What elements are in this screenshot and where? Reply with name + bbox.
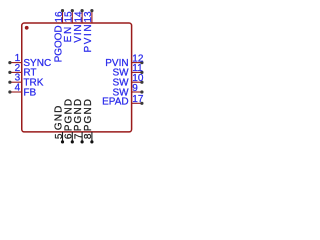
pin 11 (SW) right side (112, 63, 143, 79)
pin 13 (PVIN) top side (83, 9, 94, 53)
wire stub pin 8 (91, 132, 93, 142)
pin 16 end dot (61, 9, 64, 12)
wire stub pin 14 (81, 11, 83, 23)
wire stub pin 15 (71, 11, 73, 23)
svg-text:FB: FB (23, 87, 36, 98)
pin 12 (PVIN) right side (105, 53, 144, 69)
pin 16 (PGOOD) top side (53, 9, 64, 62)
pin 13 end dot (90, 9, 93, 12)
svg-text:PGND: PGND (83, 98, 94, 132)
svg-text:17: 17 (132, 94, 144, 105)
IC body U1 (22, 23, 132, 132)
pin 9 end dot (140, 90, 143, 93)
wire stub pin 7 (81, 132, 83, 142)
wire stub pin 13 (91, 11, 93, 23)
svg-text:9: 9 (132, 83, 138, 94)
pin-1 indicator dot (25, 26, 29, 30)
pin 14 (VIN) top side (73, 9, 84, 43)
pin 2 end dot (8, 71, 11, 74)
wire stub pin 4 (10, 91, 22, 93)
pin 8 (PGND) bottom side (83, 98, 94, 144)
pin 4 (FB) left side (8, 82, 36, 98)
pin 2 (RT) left side (8, 63, 36, 79)
pin 3 (TRK) left side (8, 73, 43, 89)
wire stub pin 1 (10, 62, 22, 64)
pin 1 (SYNC) left side (8, 53, 51, 69)
pin 7 end dot (81, 140, 84, 143)
svg-text:PVIN: PVIN (83, 23, 94, 53)
wire stub pin 17 (132, 102, 142, 104)
pin 5 (GND) bottom side (54, 105, 65, 144)
wire stub pin 12 (132, 62, 142, 64)
pin 6 end dot (71, 140, 74, 143)
pin 3 end dot (8, 81, 11, 84)
wire stub pin 3 (10, 81, 22, 83)
pin 1 end dot (8, 61, 11, 64)
pin 7 (PGND) bottom side (73, 98, 84, 144)
pin 15 (EN) top side (63, 9, 74, 42)
wire stub pin 16 (62, 11, 64, 23)
svg-text:8: 8 (83, 133, 94, 139)
wire stub pin 10 (132, 81, 142, 83)
pin 12 end dot (140, 61, 143, 64)
pin 6 (PGND) bottom side (63, 98, 74, 144)
wire stub pin 6 (71, 132, 73, 142)
pin 4 end dot (8, 90, 11, 93)
pin 5 end dot (61, 140, 64, 143)
svg-text:4: 4 (15, 82, 21, 93)
wire stub pin 9 (132, 91, 142, 93)
pin 10 end dot (140, 81, 143, 84)
svg-text:EPAD: EPAD (102, 96, 129, 107)
pin 17 (EPAD) right side (102, 94, 144, 107)
pin 10 (SW) right side (112, 73, 143, 89)
pin 8 end dot (90, 140, 93, 143)
pin 15 end dot (71, 9, 74, 12)
svg-text:13: 13 (83, 11, 94, 23)
wire stub pin 5 (62, 132, 64, 142)
wire stub pin 2 (10, 71, 22, 73)
pin 17 end dot (140, 102, 143, 105)
wire stub pin 11 (132, 71, 142, 73)
pin 9 (SW) right side (112, 83, 143, 99)
pin 14 end dot (81, 9, 84, 12)
pin 11 end dot (140, 71, 143, 74)
